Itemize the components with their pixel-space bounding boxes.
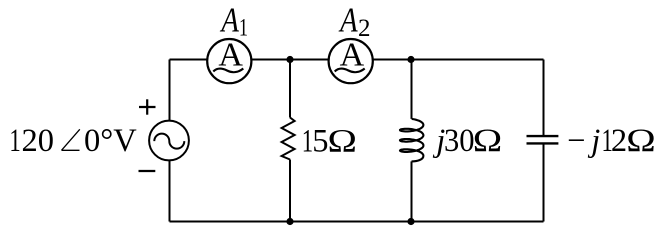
svg-text:Ω: Ω xyxy=(473,122,502,158)
svg-text:A: A xyxy=(220,0,240,39)
svg-text:−: − xyxy=(567,123,585,159)
svg-text:1: 1 xyxy=(239,14,248,41)
svg-text:2: 2 xyxy=(611,123,627,159)
svg-text:30: 30 xyxy=(444,122,475,158)
svg-text:Ω: Ω xyxy=(626,123,655,159)
svg-text:2: 2 xyxy=(358,15,371,42)
svg-text:5: 5 xyxy=(312,123,328,159)
svg-text:20: 20 xyxy=(22,123,55,159)
svg-text:Ω: Ω xyxy=(328,123,357,159)
svg-text:1: 1 xyxy=(9,123,20,159)
svg-text:0°V: 0°V xyxy=(84,123,137,159)
svg-text:A: A xyxy=(338,0,358,39)
